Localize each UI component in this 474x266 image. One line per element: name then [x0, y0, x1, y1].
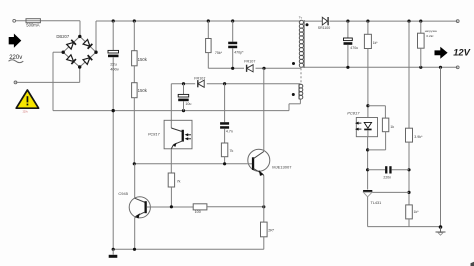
svg-text:400v: 400v: [110, 67, 119, 72]
svg-text:7k: 7k: [230, 149, 234, 153]
svg-text:220v: 220v: [23, 111, 29, 114]
svg-text:MJE13007: MJE13007: [272, 165, 292, 170]
svg-text:10u: 10u: [185, 102, 191, 106]
svg-text:150k: 150k: [138, 57, 148, 62]
svg-text:PC817: PC817: [347, 110, 360, 115]
svg-text:C945: C945: [118, 191, 128, 196]
svg-text:TL431: TL431: [371, 201, 382, 205]
svg-text:75k*: 75k*: [215, 51, 223, 55]
svg-text:0.2вт: 0.2вт: [426, 34, 434, 38]
svg-text:100: 100: [195, 210, 201, 214]
svg-text:3.9k*: 3.9k*: [414, 135, 423, 139]
svg-text:PC817: PC817: [148, 133, 160, 137]
svg-text:FR107: FR107: [244, 60, 255, 64]
svg-text:нагрузка: нагрузка: [425, 29, 437, 33]
svg-text:4.7n: 4.7n: [226, 130, 233, 134]
svg-text:Tv: Tv: [299, 16, 303, 20]
svg-text:2R*: 2R*: [268, 229, 275, 233]
svg-text:470u: 470u: [350, 46, 358, 50]
svg-text:FR107: FR107: [194, 76, 205, 80]
svg-text:1k*: 1k*: [373, 41, 379, 45]
svg-text:220n: 220n: [383, 175, 391, 179]
svg-text:DB207: DB207: [56, 34, 69, 39]
svg-text:1k: 1k: [390, 125, 394, 129]
svg-text:500mA: 500mA: [26, 23, 39, 28]
svg-text:470p*: 470p*: [234, 50, 244, 54]
svg-text:1k*: 1k*: [414, 210, 420, 214]
svg-text:7k: 7k: [177, 180, 181, 184]
svg-text:12V: 12V: [453, 46, 470, 57]
svg-text:150k: 150k: [138, 88, 148, 93]
svg-text:SR1100: SR1100: [318, 26, 330, 30]
